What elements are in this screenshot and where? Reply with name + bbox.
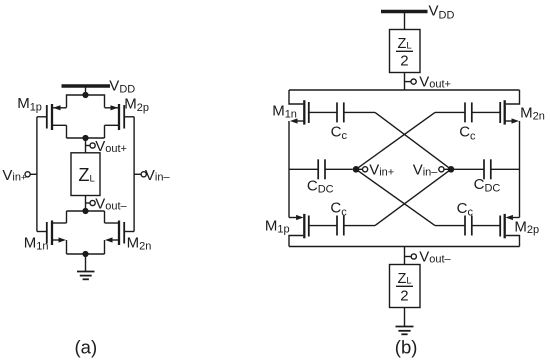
svg-text:Vin–: Vin–	[413, 162, 439, 179]
node dot VDD rail (a)	[82, 92, 88, 98]
wire rail to ZL top	[85, 138, 87, 153]
wire left vertical main segment	[288, 121, 290, 218]
wire top source rail (a)	[67, 95, 105, 108]
wire right vertical lower segment (M2p drain)	[506, 236, 520, 247]
wire VDD to ZL/2 (b)	[404, 12, 406, 30]
impedance ZL/2 top box	[390, 30, 421, 73]
transistor M1p (b)	[289, 214, 337, 238]
wire right vertical main segment	[519, 121, 521, 218]
label ZL/2 bottom	[396, 271, 413, 304]
svg-text:CDC: CDC	[474, 176, 501, 194]
wire Vin- gate line (a)	[133, 117, 135, 232]
svg-text:M2p: M2p	[124, 95, 149, 114]
capacitor Cc bottom-right	[435, 216, 472, 236]
svg-text:M1n: M1n	[24, 235, 49, 253]
capacitor Cc bottom-left	[337, 216, 375, 236]
terminal Vout- (a)	[86, 200, 96, 205]
transistor M1n (b)	[290, 100, 337, 124]
wire bottom drain rail (b)	[289, 246, 520, 248]
svg-text:M2p: M2p	[514, 218, 539, 236]
wire VDD stub (a)	[85, 86, 87, 95]
svg-text:M1p: M1p	[265, 218, 290, 236]
wire left vertical upper segment (M1n drain)	[289, 90, 303, 104]
svg-text:Vout–: Vout–	[419, 249, 451, 266]
transistor M1n	[37, 211, 67, 254]
svg-text:Cc: Cc	[331, 123, 348, 142]
svg-text:Cc: Cc	[459, 124, 476, 143]
transistor M2n	[105, 211, 135, 254]
wire ZL bottom to rail	[85, 196, 87, 212]
node Vin+ dot (b)	[353, 166, 360, 173]
node Vin- dot (b)	[448, 166, 455, 173]
wire rail to ZL/2 bottom (b)	[404, 247, 406, 265]
capacitor CDC right	[451, 159, 520, 179]
wire left vertical lower segment (M1p drain)	[289, 236, 303, 247]
transistor M2p (b)	[472, 214, 520, 238]
wire bottom source bus (a)	[67, 253, 105, 255]
wire Vin+ gate line (a)	[36, 117, 38, 232]
svg-text:(a): (a)	[75, 337, 98, 358]
wire right vertical upper segment (M2n drain)	[506, 90, 520, 104]
impedance ZL/2 bottom box	[390, 265, 421, 308]
label ZL/2 top	[396, 36, 413, 69]
terminal Vout- (b)	[405, 254, 417, 259]
capacitor Cc top-left	[337, 102, 375, 122]
svg-text:Vout+: Vout+	[419, 73, 451, 90]
svg-text:Vin+: Vin+	[2, 167, 26, 184]
wire diagonal bottom-right to Vin+	[356, 169, 435, 225]
svg-text:M1n: M1n	[272, 103, 297, 121]
transistor M2n (b)	[472, 100, 519, 124]
capacitor Cc top-right	[435, 102, 472, 122]
svg-text:M2n: M2n	[127, 234, 152, 252]
svg-text:M1p: M1p	[17, 95, 42, 114]
svg-text:ZL: ZL	[398, 271, 412, 287]
svg-text:Vin–: Vin–	[145, 167, 171, 184]
svg-text:CDC: CDC	[307, 177, 334, 195]
wire Vout+ rail (a)	[67, 137, 105, 139]
terminal Vin- (a)	[134, 172, 146, 177]
svg-text:(b): (b)	[395, 337, 418, 358]
node dot source bus (a)	[82, 251, 88, 257]
transistor M2p	[105, 104, 135, 138]
svg-text:VDD: VDD	[109, 77, 135, 95]
VDD supply bar (a)	[62, 84, 111, 87]
terminal Vin+ (a)	[25, 172, 37, 177]
node dot Vout+ (a)	[82, 135, 88, 141]
wire Vout- rail (a)	[67, 210, 105, 212]
terminal Vout+ (b)	[405, 79, 417, 84]
svg-text:Vin+: Vin+	[369, 162, 394, 179]
svg-text:M2n: M2n	[520, 105, 545, 123]
capacitor CDC left	[289, 159, 353, 179]
VDD supply bar (b)	[381, 10, 428, 13]
terminal Vin+ (b)	[356, 167, 368, 172]
terminal Vin- (b)	[439, 167, 451, 172]
ground (a)	[77, 254, 95, 279]
wire ZL/2 to top rail (b)	[404, 73, 406, 91]
svg-text:2: 2	[400, 52, 408, 69]
svg-text:Cc: Cc	[330, 200, 347, 219]
svg-text:ZL: ZL	[398, 36, 412, 52]
ground (b)	[396, 308, 414, 335]
svg-text:Cc: Cc	[457, 200, 474, 219]
svg-text:Vout–: Vout–	[95, 196, 127, 213]
wire diagonal bottom-left to Vin-	[375, 169, 451, 225]
wire top drain rail (b)	[289, 89, 520, 91]
wire diagonal top-left to Vin-	[375, 112, 451, 169]
transistor M1p	[37, 104, 67, 138]
wire diagonal top-right to Vin+	[356, 112, 435, 169]
terminal Vout+ (a)	[86, 143, 96, 148]
svg-text:ZL: ZL	[78, 165, 94, 185]
node dot Vout- (a)	[82, 208, 88, 214]
impedance ZL box	[71, 153, 100, 196]
svg-text:2: 2	[400, 287, 408, 304]
svg-text:VDD: VDD	[429, 3, 455, 22]
